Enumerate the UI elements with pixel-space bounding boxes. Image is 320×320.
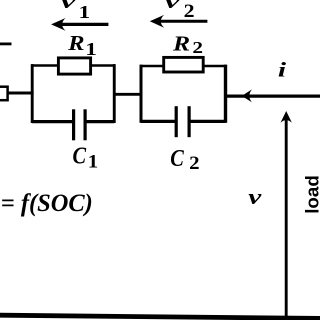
resistor R1 box xyxy=(58,58,90,74)
wire node B: block 1 to block 2 xyxy=(114,93,141,96)
arrowhead of v1 (points left) xyxy=(51,18,65,31)
resistor R0 (series resistor box, clipped at left image edge) xyxy=(0,87,8,101)
RC block 1: bottom rail right segment xyxy=(85,120,114,123)
arrow v2 shaft xyxy=(158,20,207,23)
RC block 2: bottom rail left segment xyxy=(141,120,176,123)
wire node A: R0 to block 1 xyxy=(7,91,34,94)
capacitor C1 left plate xyxy=(72,109,75,140)
wire: load voltage arrow shaft xyxy=(285,120,288,317)
arrow v1 shaft xyxy=(60,23,108,26)
wire node C: block 2 to right edge (current input) xyxy=(226,94,320,97)
RC block 1: bottom rail left segment xyxy=(32,120,73,123)
RC block 1: top rail left segment xyxy=(32,64,59,67)
svg-text:1: 1 xyxy=(79,2,91,23)
RC block 1: top rail right segment xyxy=(90,64,114,67)
svg-text:= f(SOC): = f(SOC) xyxy=(1,190,93,217)
OCV source symbol top plate (clipped at left image edge) xyxy=(0,43,12,46)
svg-text:R: R xyxy=(67,31,84,54)
capacitor C2 right plate xyxy=(188,106,191,137)
svg-text:C: C xyxy=(170,144,185,171)
RC block 2: right vertical side xyxy=(224,65,227,123)
RC block 2: top rail right segment xyxy=(203,65,226,68)
RC block 2: bottom rail right segment xyxy=(189,120,225,123)
arrowhead of voltage v (points up) xyxy=(281,111,292,123)
svg-text:R: R xyxy=(172,32,190,55)
capacitor C1 right plate xyxy=(83,109,86,140)
svg-text:1: 1 xyxy=(85,39,97,60)
RC block 1: right vertical side xyxy=(113,64,116,123)
svg-text:v: v xyxy=(61,0,77,13)
capacitor C2 left plate xyxy=(175,106,178,137)
svg-text:1: 1 xyxy=(88,151,98,172)
svg-text:load: load xyxy=(301,175,320,214)
RC block 2: top rail left segment xyxy=(141,65,164,68)
svg-text:v: v xyxy=(248,184,262,209)
svg-text:v: v xyxy=(165,0,181,13)
arrowhead of v2 (points left) xyxy=(150,15,164,28)
RC block 1: left vertical side xyxy=(31,64,34,123)
svg-text:2: 2 xyxy=(189,153,199,174)
resistor R2 box xyxy=(164,57,204,72)
svg-text:C: C xyxy=(73,142,88,169)
wire: bottom return (sloped scan line) xyxy=(0,315,320,318)
svg-text:2: 2 xyxy=(184,1,195,21)
svg-text:2: 2 xyxy=(192,39,203,58)
arrowhead of current i (points left) xyxy=(242,89,252,102)
svg-text:i: i xyxy=(278,57,286,81)
RC block 2: left vertical side xyxy=(140,65,143,123)
